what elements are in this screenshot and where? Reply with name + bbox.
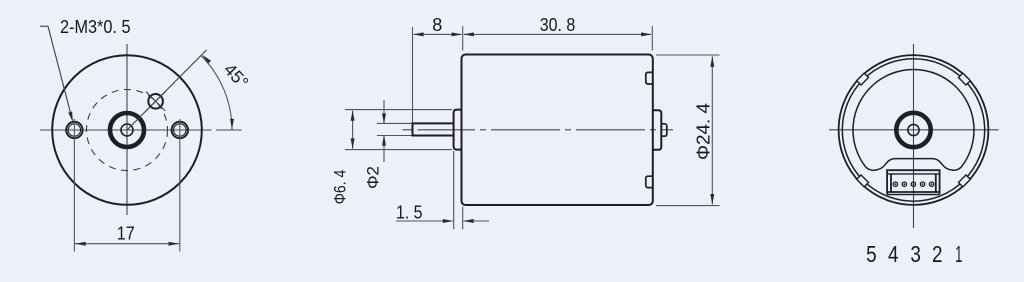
dim phi6.4 — [345, 110, 452, 150]
svg-text:Φ24. 4: Φ24. 4 — [693, 103, 714, 160]
motor body — [462, 55, 653, 206]
shaft circle rear — [908, 124, 919, 135]
dim phi24.4 — [656, 55, 720, 206]
svg-text:1. 5: 1. 5 — [396, 203, 423, 223]
rear shaft tip — [661, 124, 667, 136]
centerline vertical — [913, 44, 915, 228]
45-deg hole cross lines — [146, 92, 165, 111]
45 deg dimension arc — [201, 56, 232, 130]
svg-text:2: 2 — [932, 241, 943, 267]
terminal tab bottom — [646, 176, 653, 187]
rear bearing boss — [653, 110, 662, 150]
inner rim circle — [842, 59, 984, 201]
dim 30.8 — [464, 26, 652, 51]
centerline vertical — [126, 44, 128, 215]
center boss ring — [896, 113, 930, 147]
rim notch top-right — [958, 73, 970, 85]
17 dimension extension lines — [74, 119, 179, 252]
mounting hole right — [172, 122, 188, 138]
pin number labels 5 4 3 2 1 — [866, 241, 962, 267]
rim notch top-left — [857, 73, 869, 85]
centerline horizontal — [40, 129, 242, 131]
centerline — [403, 129, 674, 131]
rim notch bottom-right — [958, 175, 970, 187]
diagonal radial line to 45-deg hole — [127, 50, 207, 130]
dim 8 — [413, 26, 463, 123]
centerline horizontal — [829, 129, 999, 131]
motor outer circle — [52, 55, 202, 205]
dim phi2 — [377, 100, 412, 162]
mounting hole left — [66, 122, 82, 138]
svg-text:30. 8: 30. 8 — [540, 15, 576, 35]
svg-text:17: 17 — [117, 224, 135, 244]
shaft circle — [121, 124, 133, 136]
front bushing — [454, 110, 463, 150]
dashed bolt circle — [87, 90, 168, 171]
endcap inner circle arc — [853, 69, 974, 166]
center boss ring — [110, 113, 144, 147]
svg-text:5: 5 — [866, 241, 877, 267]
rim notch bottom-left — [857, 175, 869, 187]
svg-text:4: 4 — [888, 241, 899, 267]
outer rim circle — [839, 55, 989, 205]
dim 1.5 — [396, 151, 489, 229]
svg-text:8: 8 — [432, 15, 442, 35]
connector pins — [893, 182, 934, 186]
leader 2-M3*0.5 — [40, 26, 72, 120]
shaft — [413, 123, 454, 135]
45-deg hole — [148, 94, 163, 109]
svg-text:3: 3 — [910, 241, 921, 267]
svg-text:1: 1 — [955, 241, 962, 267]
terminal tab top — [646, 72, 653, 84]
svg-text:2-M3*0. 5: 2-M3*0. 5 — [60, 17, 131, 37]
endcap wavy bottom — [866, 159, 962, 171]
svg-text:Φ6. 4: Φ6. 4 — [331, 170, 350, 205]
svg-text:Φ2: Φ2 — [364, 166, 383, 189]
connector housing — [887, 170, 940, 194]
